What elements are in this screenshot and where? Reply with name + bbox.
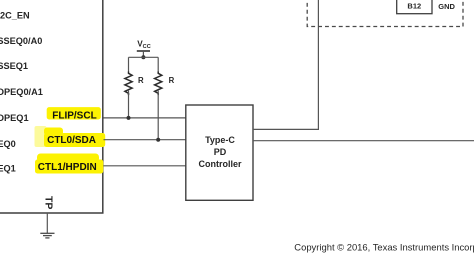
resistor R1 (left pull-up) <box>125 57 144 118</box>
pin CTL0/SDA (yellow highlighted) <box>35 126 106 147</box>
wire TP pin to ground <box>46 213 48 233</box>
junction FLIP/SCL with R1 <box>127 116 131 120</box>
svg-text:R: R <box>138 76 144 85</box>
svg-text:I2C_EN: I2C_EN <box>0 10 30 20</box>
svg-text:DPEQ1: DPEQ1 <box>0 113 29 123</box>
svg-text:DPEQ0/A1: DPEQ0/A1 <box>0 87 43 97</box>
svg-text:EQ0: EQ0 <box>0 139 16 149</box>
svg-text:VCC: VCC <box>137 39 151 50</box>
svg-text:EQ1: EQ1 <box>0 163 16 173</box>
pin FLIP/SCL (yellow highlighted) <box>47 107 101 121</box>
pin CTL1/HPDIN (yellow highlighted) <box>35 154 103 174</box>
resistor R2 (right pull-up) <box>155 57 175 139</box>
wire CTL0/SDA net <box>104 139 186 141</box>
svg-text:TP: TP <box>42 196 54 209</box>
wire PD controller right (off page) <box>253 140 474 142</box>
svg-text:CTL0/SDA: CTL0/SDA <box>47 135 96 146</box>
wire Vcc rail to resistor tops <box>129 56 159 58</box>
svg-text:R: R <box>169 76 175 85</box>
pin B12 <box>397 0 432 14</box>
svg-text:SSEQ1: SSEQ1 <box>0 61 28 71</box>
svg-text:GND: GND <box>438 2 455 11</box>
svg-text:Type-C: Type-C <box>205 135 235 145</box>
U2 Type-C PD Controller <box>186 105 253 200</box>
svg-text:Copyright © 2016, Texas Instru: Copyright © 2016, Texas Instruments Inco… <box>294 242 474 253</box>
svg-text:FLIP/SCL: FLIP/SCL <box>52 110 96 121</box>
svg-text:PD: PD <box>214 147 227 157</box>
svg-text:Controller: Controller <box>198 159 241 169</box>
U1 redriver chip outline (partial, cut off at left/top) <box>0 0 103 213</box>
wire PD controller to connector GND pin <box>253 0 318 129</box>
wire CTL1/HPDIN net <box>104 165 186 167</box>
Vcc supply symbol <box>137 39 151 57</box>
wire FLIP/SCL net <box>104 117 186 119</box>
ground <box>40 233 54 238</box>
svg-text:SSEQ0/A0: SSEQ0/A0 <box>0 36 42 46</box>
svg-text:CTL1/HPDIN: CTL1/HPDIN <box>38 162 97 173</box>
junction Vcc node <box>141 55 145 59</box>
svg-text:B12: B12 <box>407 2 421 11</box>
J1 USB Type-C receptacle (dashed outline, partial) <box>307 0 463 27</box>
junction CTL0/SDA with R2 <box>156 138 160 142</box>
